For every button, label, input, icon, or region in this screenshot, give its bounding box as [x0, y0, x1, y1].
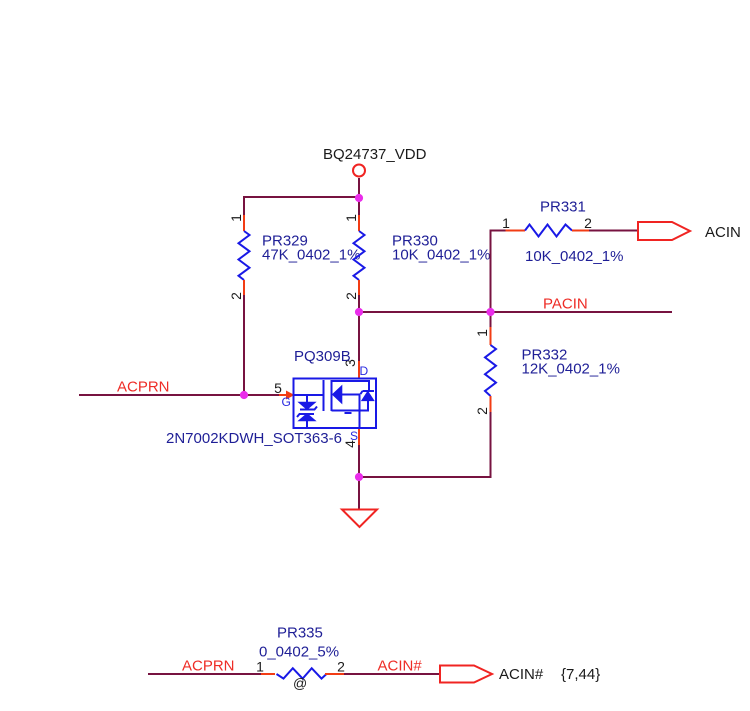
resistor PR331 — [506, 225, 590, 237]
svg-text:10K_0402_1%: 10K_0402_1% — [525, 248, 623, 265]
source link — [342, 395, 360, 428]
esd zener stem bottom — [306, 421, 308, 428]
svg-text:PR331: PR331 — [540, 199, 586, 216]
wire — [244, 196, 359, 198]
esd zener top triangle — [300, 403, 315, 410]
esd zener bottom triangle — [300, 414, 315, 421]
svg-text:5: 5 — [274, 380, 282, 396]
wire — [358, 445, 360, 477]
wire — [490, 412, 492, 478]
resistor PR329 — [239, 215, 250, 295]
bottom rail — [332, 410, 370, 412]
svg-text:10K_0402_1%: 10K_0402_1% — [392, 247, 490, 264]
wire — [359, 476, 492, 478]
wire — [358, 312, 360, 361]
wire — [243, 295, 245, 395]
svg-text:12K_0402_1%: 12K_0402_1% — [522, 361, 620, 378]
esd zener stem — [306, 395, 308, 403]
pin 5 stub (G) — [279, 394, 287, 396]
wire — [490, 230, 506, 232]
svg-text:2N7002KDWH_SOT363-6: 2N7002KDWH_SOT363-6 — [166, 430, 342, 447]
junction — [355, 194, 363, 202]
svg-text:G: G — [282, 395, 291, 409]
svg-text:2: 2 — [584, 215, 592, 231]
transistor PQ309B — [279, 361, 376, 445]
resistor PR332 — [485, 327, 496, 412]
transistor body box — [294, 379, 377, 429]
svg-text:PACIN: PACIN — [543, 296, 588, 313]
body diode top lead — [368, 380, 370, 391]
wire — [243, 196, 245, 215]
body diode cathode bar — [363, 390, 375, 392]
svg-text:BQ24737_VDD: BQ24737_VDD — [323, 146, 427, 163]
svg-text:{7,44}: {7,44} — [561, 666, 600, 683]
pin 4 stub (S) — [358, 428, 360, 445]
body diode bottom lead — [367, 400, 369, 410]
svg-text:1: 1 — [256, 659, 264, 675]
svg-text:2: 2 — [474, 407, 490, 415]
off-page connector ACIN# — [440, 666, 492, 683]
svg-text:PR335: PR335 — [277, 625, 323, 642]
channel line — [331, 380, 333, 411]
power terminal BQ24737_VDD — [353, 165, 365, 177]
svg-text:2: 2 — [337, 659, 345, 675]
wire — [589, 230, 638, 232]
gate dash — [345, 412, 352, 414]
svg-text:D: D — [360, 364, 369, 378]
substrate arrow — [333, 387, 342, 403]
drain link — [332, 380, 370, 382]
svg-text:ACIN: ACIN — [705, 224, 741, 241]
svg-text:0_0402_5%: 0_0402_5% — [259, 644, 339, 661]
wire — [244, 394, 279, 396]
wire — [490, 312, 492, 327]
svg-text:S: S — [350, 429, 358, 443]
wire — [148, 673, 261, 675]
svg-text:ACPRN: ACPRN — [117, 379, 170, 396]
svg-text:1: 1 — [502, 215, 510, 231]
wire — [358, 198, 360, 215]
svg-text:1: 1 — [343, 214, 359, 222]
svg-text:1: 1 — [474, 329, 490, 337]
svg-text:PQ309B: PQ309B — [294, 348, 351, 365]
ground — [342, 510, 377, 528]
junction — [355, 308, 363, 316]
wire PACIN — [359, 311, 672, 313]
wire — [358, 295, 360, 312]
wire ACPRN — [79, 394, 244, 396]
wire — [358, 477, 360, 509]
svg-text:2: 2 — [228, 292, 244, 300]
body diode triangle — [362, 392, 373, 400]
svg-text:ACIN#: ACIN# — [378, 658, 423, 675]
off-page connector ACIN — [638, 222, 690, 240]
junction — [240, 391, 248, 399]
pin 3 stub (D) — [358, 361, 360, 379]
svg-text:2: 2 — [343, 292, 359, 300]
junction — [486, 308, 494, 316]
wire — [490, 230, 492, 313]
svg-text:ACPRN: ACPRN — [182, 658, 235, 675]
wire — [344, 673, 440, 675]
resistor PR330 — [354, 215, 365, 295]
svg-text:1: 1 — [228, 214, 244, 222]
svg-text:47K_0402_1%: 47K_0402_1% — [262, 247, 360, 264]
gate plate — [323, 380, 325, 411]
resistor PR335 — [261, 668, 344, 678]
junction — [355, 473, 363, 481]
gate lead inside — [294, 394, 323, 396]
svg-text:ACIN#: ACIN# — [499, 666, 544, 683]
wire — [358, 178, 360, 198]
svg-text:@: @ — [293, 675, 307, 691]
esd zener bars — [300, 407, 317, 410]
